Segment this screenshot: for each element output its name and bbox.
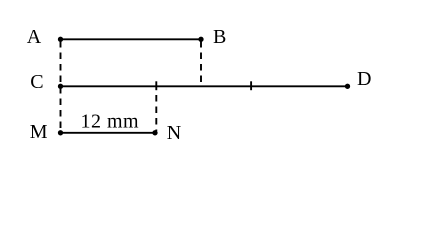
svg-text:A: A (27, 26, 42, 48)
segment AB (61, 38, 202, 40)
tick mark 2 on CD (250, 81, 252, 90)
svg-text:D: D (357, 68, 371, 90)
dashed line CD to N (155, 95, 157, 131)
svg-text:N: N (167, 122, 181, 144)
point M (58, 130, 63, 135)
svg-text:B: B (213, 26, 226, 48)
point N (152, 130, 157, 135)
segment CD (61, 85, 348, 87)
svg-text:M: M (30, 121, 48, 143)
segment MN (61, 132, 156, 134)
tick mark 1 on CD (155, 81, 157, 90)
point D (345, 84, 350, 89)
dashed line B to CD (200, 41, 202, 86)
point C (58, 84, 63, 89)
svg-text:12 mm: 12 mm (81, 110, 140, 132)
point B (198, 37, 203, 42)
point A (58, 37, 63, 42)
dashed line A to M through C (60, 41, 62, 131)
svg-text:C: C (30, 71, 43, 93)
